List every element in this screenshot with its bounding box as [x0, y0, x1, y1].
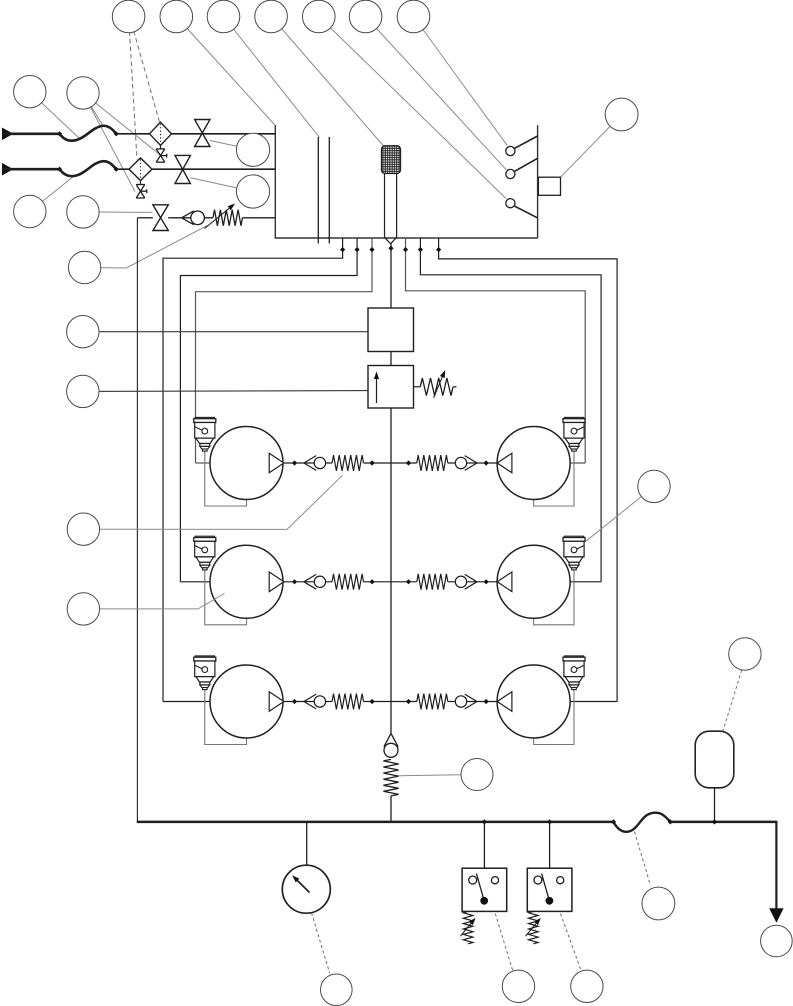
leader from callout E to check valve CV1: [85, 225, 208, 268]
leader from callout 1 to filter F1 (dashed): [130, 17, 160, 123]
injector drop left row 2: [205, 570, 247, 625]
metering spring right row 3: [417, 694, 448, 710]
fill port: [538, 177, 560, 195]
check seat left row 1: [304, 456, 316, 463]
return rail left: [136, 218, 138, 822]
junction dot: [114, 167, 119, 172]
junction dot: [484, 699, 489, 704]
junction dot: [370, 579, 375, 584]
row 1 line center: [364, 462, 417, 464]
pump right row 3: [497, 665, 570, 738]
leader from callout D to shutoff valve V3: [83, 211, 153, 214]
row 3 line right: [448, 701, 497, 703]
check valve CV1 seat: [182, 211, 194, 218]
injector fitting right row 3: [564, 656, 583, 658]
junction dot: [547, 819, 552, 824]
pump right row 2: [497, 545, 570, 618]
callout balloon outlet: [761, 925, 793, 957]
callout balloon 5: [303, 0, 336, 33]
suction tube wall b: [328, 137, 330, 244]
leader from callout B to drain cock D1: [83, 93, 160, 155]
PS1 terminal b: [491, 877, 498, 884]
callout balloon F: [67, 316, 99, 348]
junction dot: [482, 819, 487, 824]
check seat left row 2: [304, 574, 316, 581]
PS2 spring: [529, 911, 539, 943]
feed line left 1: [163, 238, 343, 702]
feed into right pump row 1: [569, 462, 585, 464]
shutoff valve V3: [153, 205, 168, 218]
main line right segment: [670, 821, 776, 824]
leader from fill port to callout: [561, 115, 622, 178]
junction dot: [668, 819, 673, 824]
supply arrow 2: [2, 163, 13, 176]
metering spring right row 2: [417, 574, 448, 590]
junction dot: [611, 819, 616, 824]
junction dot: [114, 131, 119, 136]
leader from callout A to hose H1: [30, 92, 80, 139]
leader from callout 2 to reservoir corner: [176, 17, 275, 126]
leader from callout 7 to float switch FS1: [414, 17, 508, 146]
PS2 common contact: [546, 897, 554, 905]
row 3 line center: [364, 701, 417, 703]
callout balloon I: [67, 593, 99, 625]
center supply line upper: [390, 244, 392, 308]
flexible hose H3: [614, 813, 671, 832]
injector fitting right row 2: [564, 536, 583, 538]
flexible hose H1: [60, 126, 117, 141]
drain cock D1: [156, 148, 165, 150]
junction dot: [403, 247, 408, 252]
outlet arrow: [769, 908, 783, 923]
callout balloon G: [67, 375, 99, 407]
check ball left row 2: [314, 576, 325, 587]
junction dot: [370, 699, 375, 704]
leader from accumulator to callout (dashed): [723, 670, 742, 732]
junction dot: [292, 579, 297, 584]
main line drop: [775, 821, 777, 910]
callout balloon E: [68, 251, 100, 283]
leader from callout 1 to filter F2 (dashed): [129, 17, 137, 160]
shutoff valve V2: [175, 155, 190, 169]
row 2 line left: [284, 581, 332, 583]
check seat right row 3: [465, 694, 477, 701]
reservoir right wall: [537, 125, 539, 238]
callout balloon H3: [642, 887, 675, 920]
callout balloon H: [67, 513, 99, 545]
feed into right pump row 3: [569, 701, 617, 703]
PS2 contact lever: [542, 874, 550, 901]
feed line left 3: [196, 238, 373, 463]
callout balloon 4: [255, 0, 288, 33]
pump right outlet triangle row 2: [497, 572, 512, 592]
callout balloon accumulator: [729, 638, 761, 670]
feed line right 3: [406, 238, 586, 463]
callout balloon PS2: [571, 970, 603, 1002]
feed into left pump row 2: [180, 581, 211, 583]
float switch FS1: [506, 146, 515, 155]
injector fitting right row 1: [564, 417, 583, 419]
injector fitting left row 2: [195, 536, 214, 538]
row 1 line left: [284, 462, 332, 464]
feed into left pump row 1: [196, 462, 212, 464]
float switch FS1 lever: [515, 136, 538, 148]
metering spring left row 2: [332, 574, 363, 590]
junction dot: [418, 247, 423, 252]
leader from callout C to hose H2: [30, 177, 74, 212]
suction tube wall a: [317, 137, 319, 244]
pipe 1 to reservoir: [116, 133, 275, 135]
check ball left row 3: [314, 696, 325, 707]
junction dot: [292, 699, 297, 704]
leader from callout B to drain cock D2: [83, 93, 135, 192]
pump left outlet triangle row 3: [269, 692, 284, 712]
junction dot: [57, 131, 62, 136]
junction dot: [355, 247, 360, 252]
check ball left row 1: [314, 457, 325, 468]
leader from PS2 to callout (dashed): [561, 914, 582, 972]
PS1 common contact: [480, 897, 488, 905]
float switch FS2 lever: [515, 158, 538, 171]
leader from callout B to hose H1 hump: [83, 93, 103, 126]
junction dot: [484, 460, 489, 465]
callout balloon 7: [397, 0, 430, 33]
PS1 adjust arrow: [460, 924, 470, 937]
leader from callout I to row2 pump: [83, 594, 224, 609]
PS1 spring: [463, 911, 473, 943]
pump right outlet triangle row 1: [497, 453, 512, 473]
leader from PS1 to callout (dashed): [495, 914, 513, 972]
switch PS1 stem: [483, 822, 485, 868]
pressure gauge: [282, 865, 330, 913]
float switch FS3: [506, 199, 515, 208]
feed into right pump row 2: [569, 581, 601, 583]
leader from callout F to block B1: [83, 331, 368, 333]
float switch FS3 lever: [514, 206, 537, 218]
junction dot: [484, 579, 489, 584]
adjust arrow RS1: [205, 208, 230, 228]
callout balloon V2: [236, 175, 269, 208]
filter block B1: [368, 308, 414, 352]
callout balloon PS1: [502, 970, 534, 1002]
switch PS2 stem: [549, 822, 551, 868]
pressure switch PS2 body: [527, 868, 572, 911]
flexible hose H2: [60, 161, 117, 176]
gauge stem: [306, 822, 308, 866]
junction dot: [388, 246, 393, 251]
PS2 terminal b: [557, 877, 564, 884]
bypass spring: [383, 759, 398, 796]
leader from callout 4 to strainer: [271, 17, 384, 147]
pump left row 1: [210, 427, 283, 500]
row 2 line center: [364, 581, 417, 583]
callout balloon C: [14, 195, 46, 227]
reservoir left wall: [274, 125, 276, 238]
callout balloon D: [67, 196, 99, 228]
center supply line lower: [390, 408, 392, 733]
return pipe: [137, 217, 153, 219]
pump left row 3: [210, 665, 283, 738]
leader from hose H3 to callout (dashed): [635, 832, 651, 886]
junction dot: [406, 699, 411, 704]
callout balloon J: [638, 470, 670, 502]
feed into left pump row 3: [163, 701, 211, 703]
injector drop left row 1: [205, 451, 247, 506]
leader from callout 6 to float switch FS2: [366, 17, 507, 170]
strainer screen: [382, 146, 401, 174]
junction dot: [406, 579, 411, 584]
B2 flow arrow: [376, 379, 378, 403]
PS1 contact lever: [476, 874, 484, 901]
feed line right 2: [420, 238, 601, 582]
pressure switch PS1 body: [462, 868, 507, 911]
leader from callout G to block B2: [83, 390, 368, 393]
flow control block B2: [368, 366, 414, 409]
check ball right row 1: [455, 457, 466, 468]
relief spring RS1: [213, 210, 243, 226]
junction dot: [370, 460, 375, 465]
supply arrow 1: [2, 128, 13, 141]
leader from valve V1 to callout: [210, 141, 253, 150]
accumulator stem: [714, 788, 716, 822]
B2 spring tail: [453, 386, 457, 388]
gauge needle: [298, 881, 310, 893]
pump left outlet triangle row 2: [269, 572, 284, 592]
float switch FS2: [506, 169, 515, 178]
callout balloon A: [14, 76, 46, 108]
row 3 line left: [284, 701, 332, 703]
callout balloon K: [461, 759, 493, 791]
check seat right row 1: [465, 456, 477, 463]
leader from valve V2 to callout: [191, 178, 254, 192]
callout balloon 2: [160, 0, 193, 33]
feed line right 1: [439, 238, 617, 702]
callout balloon L: [321, 974, 353, 1006]
drain stem F1: [160, 145, 162, 149]
bypass check seat: [384, 733, 391, 746]
leader from callout 5 to float switch FS3: [319, 17, 506, 199]
pump right outlet triangle row 3: [497, 692, 512, 712]
junction dot: [57, 167, 62, 172]
injector drop right row 1: [534, 451, 574, 506]
pipe 2 to reservoir: [116, 168, 275, 170]
check ball right row 3: [455, 696, 466, 707]
B2 bias spring: [420, 378, 453, 396]
supply pipe 2 segment: [3, 168, 60, 171]
leader from callout 3 to suction tube: [224, 17, 320, 138]
strainer tube: [384, 174, 386, 238]
check seat left row 3: [304, 694, 316, 701]
pump left row 2: [210, 545, 283, 618]
injector fitting left row 1: [195, 417, 214, 419]
link B1-B2: [390, 352, 392, 366]
callout balloon V1: [236, 133, 269, 166]
junction dot: [292, 460, 297, 465]
PS1 terminal a: [469, 876, 477, 884]
leader from gauge to callout L (dashed): [312, 913, 330, 973]
injector drop right row 2: [534, 570, 574, 625]
main discharge line: [137, 821, 614, 824]
PS2 terminal a: [534, 876, 542, 884]
junction dot: [369, 247, 374, 252]
PS2 adjust arrow: [526, 924, 536, 937]
filter F1: [150, 122, 172, 145]
pipe to main line: [390, 796, 392, 822]
metering spring right row 1: [417, 455, 448, 471]
row 2 line right: [448, 581, 497, 583]
accumulator: [695, 731, 734, 788]
callout balloon 3: [207, 0, 240, 33]
leader from bypass spring to callout K: [399, 775, 478, 776]
callout balloon B: [67, 77, 99, 109]
drain cock D2: [136, 184, 145, 186]
check ball right row 2: [455, 576, 466, 587]
junction dot: [406, 460, 411, 465]
injector fitting left row 3: [195, 656, 214, 658]
pipe spring to reservoir: [243, 217, 276, 219]
injector drop right row 3: [534, 690, 574, 745]
B2 adjust arrow: [434, 377, 443, 398]
leader from callout H to row1 spring: [83, 475, 342, 529]
pipe V3 to check valve: [168, 217, 213, 219]
drain stem F2: [140, 181, 142, 185]
junction dot: [436, 247, 441, 252]
bypass check ball: [384, 743, 398, 757]
check seat right row 2: [465, 574, 477, 581]
leader from callout J to row2 right injector: [586, 486, 654, 541]
callout balloon 1: [112, 0, 145, 33]
supply pipe 1 segment: [3, 133, 60, 136]
junction dot: [340, 247, 345, 252]
pump right row 1: [497, 427, 570, 500]
B2 spring stub: [414, 386, 421, 388]
pump left outlet triangle row 1: [269, 453, 284, 473]
filter F2: [129, 158, 152, 181]
metering spring left row 1: [332, 455, 363, 471]
junction dot: [712, 819, 717, 824]
row 1 line right: [448, 462, 497, 464]
injector drop left row 3: [205, 690, 247, 745]
feed line left 2: [180, 238, 357, 582]
metering spring left row 3: [332, 694, 363, 710]
callout balloon 6: [349, 0, 382, 33]
callout balloon fill port: [605, 98, 638, 131]
shutoff valve V1: [195, 120, 210, 134]
reservoir bottom: [275, 237, 538, 239]
check valve CV1 ball: [191, 211, 205, 225]
